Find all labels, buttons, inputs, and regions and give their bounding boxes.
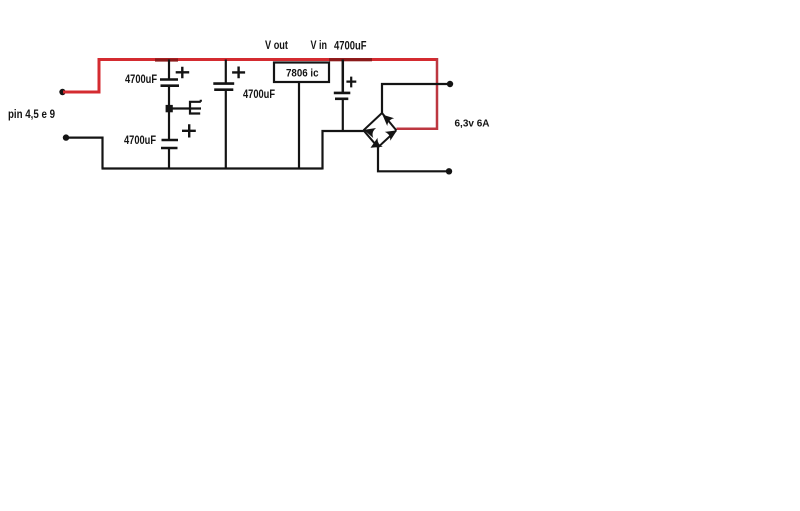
wire: bridge bottom corner to output minus dot xyxy=(378,147,449,171)
wire: stub from junction square to tap symbol xyxy=(172,107,190,109)
capacitor C2 4700uF bottom plate xyxy=(161,147,178,150)
label: plus sign of C3 xyxy=(232,67,245,79)
IC U1 7806 regulator box xyxy=(274,63,329,83)
capacitor C3 4700uF bottom plate xyxy=(214,88,233,91)
node: input positive terminal dot xyxy=(59,89,65,95)
diode D3 arrowhead pointing to right corner xyxy=(385,126,400,141)
capacitor C2 4700uF top plate xyxy=(162,139,179,142)
label: plus sign of C4 xyxy=(346,77,356,88)
wire: lead from junction square down to C2 xyxy=(168,112,170,140)
svg-text:4700uF: 4700uF xyxy=(124,135,156,147)
node: solid square junction between C1 and C2 xyxy=(166,105,173,112)
capacitor C1 4700uF bottom plate xyxy=(161,84,180,87)
svg-text:4700uF: 4700uF xyxy=(125,74,157,86)
svg-text:4700uF: 4700uF xyxy=(334,41,367,53)
label: plus sign of C1 xyxy=(176,67,190,79)
svg-text:4700uF: 4700uF xyxy=(243,89,275,101)
capacitor C4 4700uF top plate xyxy=(334,92,351,95)
wire: lead from C4 down to bridge left-corner wire xyxy=(342,99,344,131)
wire: lead from C2 to ground bus xyxy=(168,148,170,169)
diode D4 arrowhead pointing to bottom corner xyxy=(368,138,383,153)
wire: red positive wire from input dot up and across the top to bridge right corner xyxy=(63,60,437,93)
wire: 7806 common lead down to ground bus xyxy=(298,82,300,169)
wire: lead from C3 to ground bus xyxy=(225,90,227,169)
wire: lower input lead from dot to ground bus xyxy=(66,138,103,169)
svg-text:7806 ic: 7806 ic xyxy=(286,68,319,80)
wire: red lead down right side into bridge right corner xyxy=(397,58,438,129)
capacitor C1 4700uF top plate xyxy=(160,78,178,81)
diode D1 arrowhead pointing to left corner xyxy=(362,125,376,138)
diode D2: bridge top-right edge xyxy=(382,113,396,130)
wire: C3 top lead from red rail xyxy=(225,60,227,84)
wire: bridge top corner to output plus dot xyxy=(382,84,450,113)
diode D4: bridge bottom-left edge xyxy=(364,130,379,147)
wire: dark overlap of red wire over black wire above C1 xyxy=(155,58,178,61)
node: input negative terminal dot xyxy=(63,134,69,140)
wire: C4 top lead from red rail xyxy=(342,60,345,93)
wire: bus riser to bridge left corner xyxy=(323,131,364,170)
svg-text:V in: V in xyxy=(311,40,328,52)
label: plus sign of C2 xyxy=(182,124,196,137)
diode D3: bridge bottom-right edge xyxy=(378,130,396,147)
capacitor C4 4700uF bottom plate xyxy=(335,98,348,101)
svg-text:V out: V out xyxy=(265,40,288,52)
diode D1: bridge top-left edge xyxy=(364,113,383,130)
wire: C1 top lead from red rail xyxy=(168,60,170,80)
wire: bottom ground bus xyxy=(102,167,323,169)
node: output positive dot xyxy=(447,81,453,87)
svg-text:pin 4,5 e 9: pin 4,5 e 9 xyxy=(8,107,55,121)
symbol: E-shaped tap/connector xyxy=(190,100,201,115)
capacitor C3 4700uF top plate xyxy=(213,82,234,85)
diode D2 arrowhead pointing to top corner xyxy=(379,111,394,126)
svg-text:6,3v 6A: 6,3v 6A xyxy=(455,118,490,130)
wire: dark overlap of red wire over black wire above C4 xyxy=(329,58,372,61)
wire: lead from C1 to junction square xyxy=(168,86,170,106)
node: output negative dot xyxy=(446,168,452,174)
